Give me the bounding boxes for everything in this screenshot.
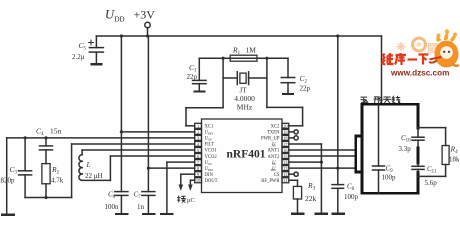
svg-text:DOUT: DOUT <box>205 179 218 184</box>
svg-text:XC1: XC1 <box>205 125 215 130</box>
svg-text:L: L <box>86 160 91 169</box>
ground C6 <box>115 213 129 215</box>
wire pin7 USS to ground <box>167 162 195 213</box>
wire pin9 DIN to uC arrow <box>179 174 195 191</box>
svg-text:VCO2: VCO2 <box>205 155 218 160</box>
capacitor C2 22p <box>281 58 310 94</box>
wire XC1 path to pin1 <box>186 108 223 126</box>
ground left <box>1 214 15 216</box>
op-amp U1 nRF401 IC body <box>202 119 283 193</box>
svg-text:C8: C8 <box>347 183 355 193</box>
svg-text:TXEN: TXEN <box>267 131 280 136</box>
pin 5 VCO1 <box>195 148 218 154</box>
pin 19 TXEN <box>267 129 289 135</box>
svg-text:FILT: FILT <box>205 143 215 148</box>
svg-text:CS: CS <box>274 173 280 178</box>
wire UDD rail <box>96 34 381 37</box>
pin 15 ANT2 <box>268 154 289 160</box>
resistor R4 18k <box>418 128 460 177</box>
loop antenna ring <box>362 104 418 193</box>
svg-text:C3: C3 <box>10 165 18 176</box>
svg-text:DD: DD <box>271 168 276 172</box>
svg-text:100n: 100n <box>105 203 120 211</box>
svg-text:22p: 22p <box>300 85 311 93</box>
svg-text:22p: 22p <box>187 73 198 81</box>
pin 6 VCO2 <box>195 154 218 160</box>
svg-text:UDD: UDD <box>205 167 214 172</box>
svg-text:C10: C10 <box>401 134 411 144</box>
wire UDD rail drop to antenna <box>381 36 383 104</box>
wire pin14 USS <box>289 161 321 163</box>
pin 12 CS <box>274 172 289 178</box>
pin 4 FILT <box>195 141 214 147</box>
svg-text:SS: SS <box>272 162 276 166</box>
pin 17 Uss <box>272 141 289 147</box>
svg-text:USS: USS <box>205 137 212 142</box>
ground pin7 <box>160 213 174 215</box>
capacitor C7 1n <box>134 36 155 213</box>
svg-text:R3: R3 <box>307 181 316 192</box>
svg-text:www.dzsc.com: www.dzsc.com <box>390 69 449 78</box>
inductor L 22uH <box>79 150 195 180</box>
svg-text:3.3p: 3.3p <box>399 145 412 153</box>
svg-text:R2: R2 <box>51 165 60 176</box>
svg-text:USS: USS <box>205 161 212 166</box>
svg-text:1n: 1n <box>137 203 145 211</box>
capacitor C5 2.2u <box>72 36 103 64</box>
node UDD supply terminal <box>145 22 150 36</box>
ground C8 <box>331 213 345 215</box>
wire UDD drop to C8 <box>337 36 339 185</box>
pin18 PWR_UP open terminal <box>289 136 298 140</box>
pin 14 Uss <box>272 160 289 166</box>
svg-text:11: 11 <box>283 178 287 183</box>
pin 10 DOUT <box>195 178 218 184</box>
svg-text:4.7k: 4.7k <box>51 177 64 185</box>
svg-text:U: U <box>105 8 115 22</box>
pin 13 Udd <box>271 166 289 172</box>
svg-text:VCO1: VCO1 <box>205 149 218 154</box>
label loop antenna (huan xing tian xian) <box>361 96 400 103</box>
resistor R2 4.7k <box>42 164 64 198</box>
capacitor C10 3.3p <box>399 128 425 153</box>
svg-text:22 μH: 22 μH <box>85 172 103 180</box>
svg-text:nRF401: nRF401 <box>227 149 266 161</box>
svg-text:μC: μC <box>187 197 195 204</box>
svg-text:22k: 22k <box>305 194 317 203</box>
svg-text:100p: 100p <box>344 193 359 201</box>
wire pin15 ANT2 <box>289 155 356 157</box>
wire pin17 USS to ground <box>289 144 323 213</box>
svg-text:2.2μ: 2.2μ <box>72 53 85 61</box>
capacitor C4 15n <box>36 127 62 164</box>
svg-text:820p: 820p <box>1 177 16 185</box>
svg-text:ANT1: ANT1 <box>268 149 281 154</box>
pin12 CS open terminal <box>289 172 298 176</box>
pin 8 Udd <box>195 166 214 172</box>
svg-text:5.6p: 5.6p <box>425 179 438 187</box>
resistor R3 22k <box>289 180 317 213</box>
svg-text:DIN: DIN <box>205 173 214 178</box>
antenna feed tab <box>356 136 362 172</box>
wire pin13 UDD to antenna feed <box>289 167 356 170</box>
pin 20 XC2 <box>271 123 289 129</box>
wire pin2 UDD to C6 line <box>120 130 195 133</box>
svg-text:MHz: MHz <box>237 102 253 111</box>
svg-text:C4: C4 <box>36 127 44 138</box>
wire thick segment C10-C11 <box>417 140 419 166</box>
svg-text:R4: R4 <box>450 145 459 156</box>
ground R3 <box>291 213 305 215</box>
node label jie uC (to microcontroller) <box>178 196 195 204</box>
wire pin10 DOUT to uC arrow <box>188 180 195 191</box>
pin 9 DIN <box>195 172 214 178</box>
wire pin8 UDD <box>148 167 194 169</box>
svg-text:18k: 18k <box>449 156 460 164</box>
svg-text:15n: 15n <box>50 127 62 136</box>
wire XC2 path to pin20 <box>267 107 303 125</box>
svg-text:PWR_UP: PWR_UP <box>261 137 280 142</box>
resistor R1 1M <box>230 46 257 62</box>
svg-text:DD: DD <box>115 16 125 24</box>
svg-text:C5: C5 <box>79 41 87 52</box>
wire pin16 ANT1 <box>289 149 356 151</box>
svg-text:RF_PWR: RF_PWR <box>261 179 280 184</box>
wire pin6 VCO2 <box>82 156 195 180</box>
pin 11 RF_PWR <box>261 178 289 184</box>
capacitor C9 100p <box>373 104 397 193</box>
pin 16 ANT1 <box>268 148 289 154</box>
pin19 TXEN open terminal <box>289 130 298 134</box>
svg-text:UDD: UDD <box>205 131 214 136</box>
svg-text:1: 1 <box>197 124 199 129</box>
svg-text:XC2: XC2 <box>271 125 281 130</box>
svg-text:C11: C11 <box>427 165 437 175</box>
svg-text:ANT2: ANT2 <box>268 155 281 160</box>
crystal JT 4.0000 MHz <box>223 58 267 111</box>
svg-text:C7: C7 <box>134 191 142 201</box>
pin 18 PWR_UP <box>261 135 289 141</box>
svg-text:100p: 100p <box>382 174 397 182</box>
capacitor C11 5.6p <box>412 165 437 187</box>
wire pin4 FILT <box>25 144 195 199</box>
svg-text:C1: C1 <box>189 63 197 74</box>
capacitor C1 22p <box>187 58 207 91</box>
node UDD +3V label <box>105 8 155 24</box>
ground C7 <box>142 213 156 215</box>
wire pin3 USS ground bus <box>7 136 195 214</box>
svg-text:12: 12 <box>283 172 287 177</box>
pin 2 Udd <box>195 129 214 135</box>
pin 1 XC1 <box>195 123 214 129</box>
watermark dzsc logo <box>382 29 459 77</box>
capacitor C8 100p <box>332 183 358 214</box>
svg-text:2: 2 <box>197 130 199 135</box>
svg-text:SS: SS <box>272 144 276 148</box>
wire crystal top node <box>199 57 288 60</box>
svg-text:❈: ❈ <box>396 40 406 54</box>
pin 7 Uss <box>195 160 212 166</box>
pin 3 Uss <box>195 135 212 141</box>
svg-text:1M: 1M <box>246 46 257 55</box>
ground pin17/pin14 <box>315 213 329 215</box>
capacitor C3 820p <box>1 138 32 198</box>
svg-text:+3V: +3V <box>134 8 156 22</box>
svg-text:R1: R1 <box>232 46 241 57</box>
capacitor C6 100n <box>105 36 128 213</box>
svg-text:C2: C2 <box>300 74 308 85</box>
